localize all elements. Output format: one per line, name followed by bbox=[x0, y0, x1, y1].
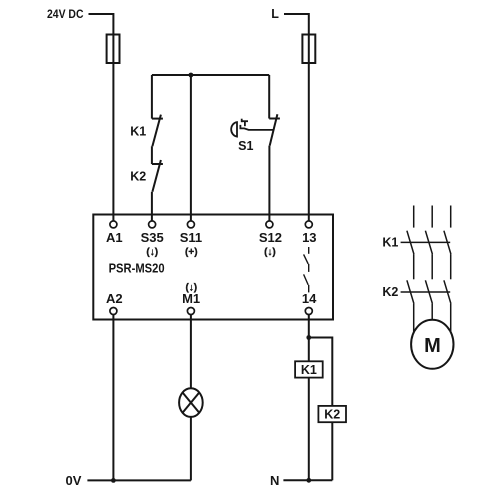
wire K1 to K2 contact bbox=[151, 146, 153, 164]
net 24V DC supply wire bbox=[89, 14, 114, 221]
motor branch 3-phase bbox=[401, 206, 451, 345]
fuse F1 bbox=[107, 35, 120, 64]
wire bus to terminal S11 bbox=[190, 75, 192, 221]
svg-text:K1: K1 bbox=[130, 125, 146, 139]
wire top feedback bus bbox=[152, 74, 269, 76]
wire phase stubs bbox=[413, 206, 415, 228]
svg-text:K2: K2 bbox=[382, 285, 398, 299]
motor M bbox=[411, 320, 453, 369]
S1 mushroom head actuator bbox=[231, 119, 273, 137]
terminal S35 bbox=[149, 221, 156, 228]
terminal A2 bbox=[110, 308, 117, 315]
net L supply wire bbox=[284, 14, 309, 221]
svg-text:S12: S12 bbox=[259, 230, 282, 245]
svg-text:S1: S1 bbox=[238, 139, 253, 153]
wire motor leads bbox=[413, 304, 415, 344]
svg-text:(↓): (↓) bbox=[264, 247, 276, 258]
svg-text:(↓): (↓) bbox=[146, 247, 158, 258]
terminal A1 bbox=[110, 221, 117, 228]
svg-text:S35: S35 bbox=[141, 230, 164, 245]
svg-text:A2: A2 bbox=[106, 291, 123, 306]
svg-text:24V DC: 24V DC bbox=[47, 7, 84, 21]
wire K2 contact to terminal S35 bbox=[151, 192, 153, 221]
svg-text:K1: K1 bbox=[382, 236, 398, 250]
contactor K2 main contacts bbox=[401, 280, 451, 303]
svg-text:M1: M1 bbox=[182, 291, 200, 306]
svg-text:S11: S11 bbox=[180, 230, 202, 245]
junction bus/S11 bbox=[189, 73, 194, 78]
terminal M1 bbox=[187, 308, 194, 315]
svg-text:M: M bbox=[424, 335, 441, 357]
wire A2 to 0V bbox=[112, 315, 114, 481]
contact K2 (feedback, N/O) bbox=[152, 160, 163, 192]
net 0V rail bbox=[87, 479, 190, 481]
relay coil K1 bbox=[295, 361, 323, 377]
svg-text:PSR-MS20: PSR-MS20 bbox=[109, 261, 165, 276]
wire terminal 14 to K1 coil bbox=[308, 315, 310, 362]
terminal 13 bbox=[305, 221, 312, 228]
svg-text:14: 14 bbox=[302, 291, 317, 306]
wire lamp to 0V bbox=[190, 417, 192, 481]
svg-text:(+): (+) bbox=[185, 247, 198, 258]
emergency stop S1 (N/C contact) bbox=[269, 114, 280, 145]
svg-text:K1: K1 bbox=[301, 363, 317, 377]
contact K1 (feedback, N/O) bbox=[152, 115, 163, 147]
svg-text:K2: K2 bbox=[324, 408, 340, 422]
svg-text:L: L bbox=[271, 7, 279, 21]
wire bus to K1 contact bbox=[151, 75, 153, 119]
svg-text:13: 13 bbox=[302, 230, 316, 245]
relay coil K2 bbox=[318, 406, 346, 422]
svg-text:A1: A1 bbox=[106, 230, 123, 245]
svg-text:N: N bbox=[270, 473, 279, 488]
lamp P1 bbox=[179, 388, 203, 417]
contactor K1 main contacts bbox=[401, 231, 451, 254]
svg-text:K2: K2 bbox=[130, 170, 146, 184]
wire branch to K2 coil bbox=[309, 338, 333, 406]
svg-text:0V: 0V bbox=[66, 473, 82, 488]
fuse F2 bbox=[302, 35, 315, 64]
terminal 14 bbox=[305, 308, 312, 315]
wire K1 coil to N bbox=[308, 378, 310, 481]
wire M1 to lamp bbox=[190, 315, 192, 389]
relay box PSR-MS20 bbox=[93, 215, 333, 320]
wire mid verticals bbox=[413, 254, 415, 279]
terminal S11 bbox=[187, 221, 194, 228]
wire S1 to terminal S12 bbox=[268, 146, 270, 221]
net N rail bbox=[283, 479, 332, 481]
junction A2/0V bbox=[111, 478, 116, 483]
junction 14 branch bbox=[306, 335, 311, 340]
terminal S12 bbox=[266, 221, 273, 228]
wire K2 coil to N bbox=[331, 423, 333, 481]
wire bus to S1 contact bbox=[268, 75, 270, 119]
contact 13-14 inside relay bbox=[304, 247, 309, 292]
junction N bbox=[306, 478, 311, 483]
